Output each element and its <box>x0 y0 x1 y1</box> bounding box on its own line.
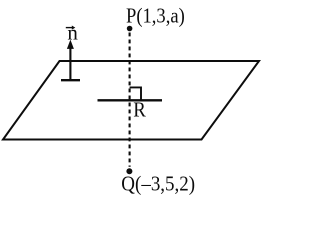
svg-text:n: n <box>67 21 78 45</box>
svg-text:Q(–3,5,2): Q(–3,5,2) <box>121 171 195 195</box>
svg-text:R: R <box>133 97 146 121</box>
svg-text:P(1,3,a): P(1,3,a) <box>126 3 185 27</box>
